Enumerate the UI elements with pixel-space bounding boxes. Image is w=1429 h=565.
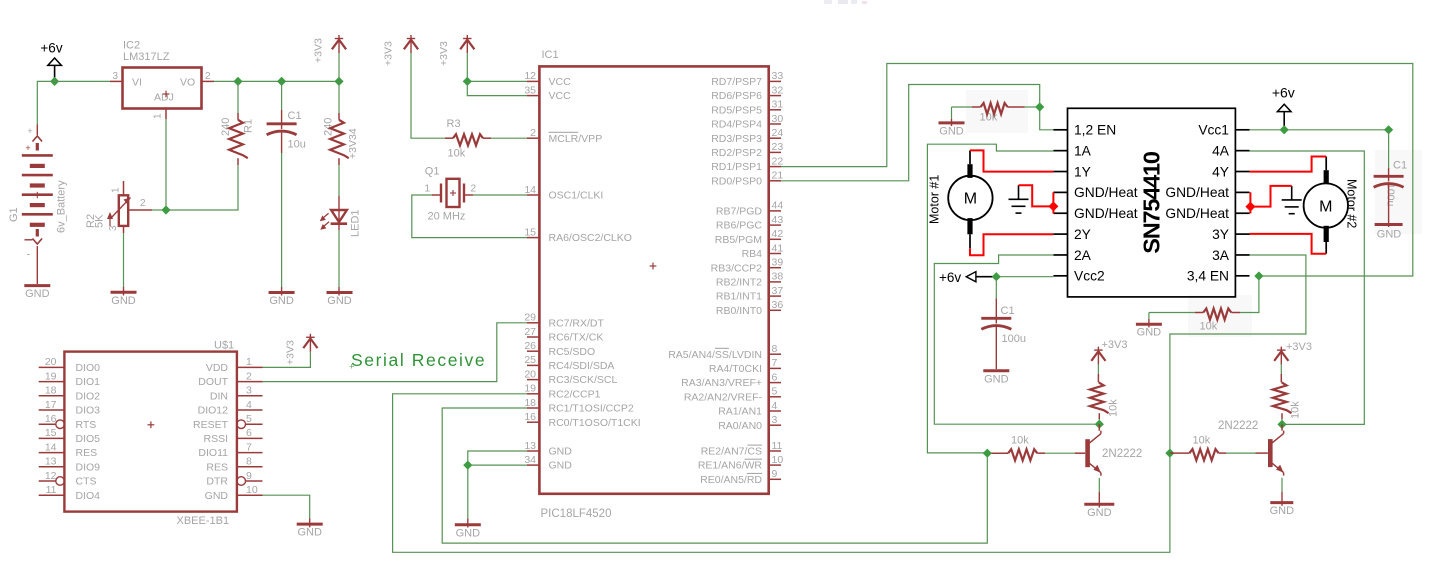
pin 16 RTS: [39, 423, 56, 425]
svg-text:20 MHz: 20 MHz: [428, 211, 466, 223]
svg-text:RC5/SDO: RC5/SDO: [549, 346, 596, 358]
svg-text:RD7/PSP7: RD7/PSP7: [711, 76, 762, 88]
node base junction Q3: [1165, 449, 1174, 458]
pin 12 CTS: [39, 480, 56, 482]
svg-text:3: 3: [112, 71, 118, 82]
svg-text:IC1: IC1: [542, 49, 559, 61]
svg-text:RES: RES: [206, 461, 228, 473]
svg-text:22: 22: [772, 155, 784, 167]
svg-text:8: 8: [246, 456, 252, 468]
pin 4 DIO12: [237, 409, 263, 411]
svg-text:14: 14: [524, 184, 536, 196]
svg-text:RE0/AN5/RD: RE0/AN5/RD: [700, 474, 762, 486]
svg-text:U$1: U$1: [214, 340, 234, 352]
svg-text:10k: 10k: [1108, 399, 1120, 417]
svg-text:+6v: +6v: [1272, 85, 1295, 101]
pin 12 VCC: [527, 80, 539, 82]
svg-text:RC1/T1OSI/CCP2: RC1/T1OSI/CCP2: [549, 403, 634, 415]
svg-text:6: 6: [772, 371, 778, 383]
svg-text:DIO2: DIO2: [76, 390, 101, 402]
wire 2Y: [970, 234, 1053, 255]
svg-text:GND: GND: [456, 527, 481, 539]
pin 30 RD: [769, 123, 781, 125]
svg-text:RA4/T0CKI: RA4/T0CKI: [709, 363, 762, 375]
wire RC2 to Q3 base net: [393, 255, 1306, 552]
node Vcc2 junction: [992, 272, 1001, 281]
pin 4A: [1235, 150, 1249, 152]
wire heat gnd: [1250, 186, 1291, 207]
pin 43 RB: [769, 224, 781, 226]
svg-text:10k: 10k: [1193, 435, 1211, 447]
svg-text:9: 9: [246, 470, 252, 482]
svg-text:19: 19: [45, 370, 57, 382]
pin 3 DIN: [237, 395, 263, 397]
svg-text:3: 3: [772, 414, 778, 426]
svg-text:GND/Heat: GND/Heat: [1074, 185, 1138, 200]
svg-text:LED1: LED1: [350, 209, 362, 237]
pin 35 VCC: [527, 95, 539, 97]
svg-text:+3V3: +3V3: [438, 41, 450, 66]
pin GND/Heat: [1053, 212, 1067, 214]
svg-text:-: -: [27, 249, 31, 261]
pin 16 RC: [527, 421, 539, 423]
node +6v junction: [1280, 125, 1289, 134]
svg-text:RA2/AN2/VREF-: RA2/AN2/VREF-: [684, 391, 763, 403]
svg-text:RB5/PGM: RB5/PGM: [715, 234, 762, 246]
pin 2 DOUT: [237, 381, 263, 383]
svg-text:1: 1: [246, 356, 252, 368]
ground: [24, 284, 50, 287]
pin 44 RB: [769, 210, 781, 212]
svg-text:7: 7: [772, 357, 778, 369]
wire: [55, 80, 110, 82]
wire: [1281, 419, 1283, 424]
wire: [338, 230, 340, 287]
pin 9 DTR: [246, 480, 263, 482]
svg-text:16: 16: [45, 413, 57, 425]
pin 32 RD: [769, 95, 781, 97]
svg-text:GND: GND: [939, 125, 964, 137]
svg-text:DIO11: DIO11: [198, 447, 228, 459]
pin 2 wiper: [128, 209, 152, 211]
svg-text:+6v: +6v: [40, 41, 62, 56]
pin 13 DIO9: [39, 466, 65, 468]
pin 41 RB: [769, 253, 781, 255]
svg-text:36: 36: [772, 299, 784, 311]
pin 18 RC: [527, 407, 539, 409]
svg-text:5K: 5K: [94, 214, 106, 228]
svg-text:RSSI: RSSI: [203, 433, 228, 445]
pin 3,4 EN: [1235, 275, 1249, 277]
wire GND: [263, 495, 310, 518]
svg-text:ADJ: ADJ: [154, 92, 174, 104]
pin 38 RB: [769, 281, 781, 283]
node +6V junction: [50, 77, 59, 86]
svg-text:GND: GND: [111, 295, 136, 307]
svg-text:LM317LZ: LM317LZ: [123, 51, 170, 63]
pin 15 RA6/OSC2/CLKO: [527, 237, 539, 239]
pin 39 RB: [769, 267, 781, 269]
svg-text:44: 44: [772, 200, 784, 212]
highlight box: [966, 90, 1028, 133]
pin 3: [123, 226, 125, 233]
svg-text:RB3/CCP2: RB3/CCP2: [711, 262, 763, 274]
svg-text:+3V3: +3V3: [313, 38, 325, 63]
wire: [152, 209, 166, 211]
svg-text:1Y: 1Y: [1074, 164, 1091, 179]
node VCC junction: [463, 77, 472, 86]
svg-text:RC3/SCK/SCL: RC3/SCK/SCL: [549, 374, 618, 386]
svg-text:RE2/AN7/CS: RE2/AN7/CS: [701, 446, 762, 458]
supply +3V3: [466, 35, 468, 53]
svg-text:27: 27: [524, 326, 536, 338]
svg-text:SN754410: SN754410: [1139, 151, 1165, 254]
pin 1 VDD: [237, 366, 263, 368]
svg-text:RC0/T1OSO/T1CKI: RC0/T1OSO/T1CKI: [549, 417, 641, 429]
svg-text:RD4/PSP4: RD4/PSP4: [711, 119, 762, 131]
svg-text:+3V3: +3V3: [1286, 341, 1312, 353]
wire VDD: [263, 352, 311, 368]
svg-text:GND/Heat: GND/Heat: [1165, 206, 1229, 221]
svg-text:3Y: 3Y: [1212, 227, 1229, 242]
svg-text:IC2: IC2: [123, 40, 140, 52]
pin 34 GND: [527, 464, 539, 466]
wire 3,4EN junction: [1254, 271, 1263, 280]
svg-text:18: 18: [524, 397, 536, 409]
svg-text:41: 41: [772, 242, 784, 254]
supply +3V3: [410, 35, 412, 53]
pin 22 RD: [769, 166, 781, 168]
svg-text:GND/Heat: GND/Heat: [1165, 185, 1229, 200]
svg-text:VDD: VDD: [206, 362, 229, 374]
pin 1: [165, 109, 167, 120]
pin 6 RA: [769, 382, 781, 384]
pin 6 RSSI: [237, 437, 263, 439]
svg-text:RES: RES: [76, 447, 98, 459]
pin 2: [202, 80, 214, 82]
pin 7 DIO11: [237, 452, 263, 454]
pin 4 RA: [769, 410, 781, 412]
svg-text:RD6/PSP6: RD6/PSP6: [711, 90, 762, 102]
wire: [1098, 419, 1100, 424]
svg-text:GND: GND: [1137, 327, 1162, 339]
ground: [1281, 492, 1283, 506]
ground: [951, 119, 953, 126]
svg-text:RC7/RX/DT: RC7/RX/DT: [549, 317, 605, 329]
svg-text:43: 43: [772, 214, 784, 226]
pin 25 RC: [527, 364, 539, 366]
pin 24 RD: [769, 137, 781, 139]
pin 10 RE: [769, 464, 781, 466]
svg-text:12: 12: [45, 470, 57, 482]
node base junction Q2: [983, 449, 992, 458]
svg-text:3,4 EN: 3,4 EN: [1187, 269, 1229, 284]
wire: [951, 107, 953, 119]
wire: [467, 53, 527, 81]
node collector junction Q2: [1095, 420, 1104, 429]
wire RD1 to 3,4EN: [781, 64, 1413, 277]
pin 10 GND: [237, 494, 263, 496]
pin 19 DIO1: [39, 381, 65, 383]
svg-text:5: 5: [246, 413, 252, 425]
svg-text:2N2222: 2N2222: [1218, 420, 1258, 432]
wire RC1 to Q2 base net: [442, 408, 987, 543]
svg-text:OSC1/CLKI: OSC1/CLKI: [549, 190, 604, 202]
svg-text:10: 10: [772, 454, 784, 466]
svg-text:6v_Battery: 6v_Battery: [56, 180, 68, 233]
svg-text:+3V34: +3V34: [347, 128, 359, 159]
svg-text:DIO0: DIO0: [76, 362, 101, 374]
wire: [1280, 364, 1282, 374]
driver U2 SN754410: [1068, 108, 1236, 297]
svg-text:GND: GND: [549, 460, 573, 472]
node junction LED branch: [334, 77, 343, 86]
svg-text:38: 38: [772, 271, 784, 283]
pin 14 OSC1/CLKI: [527, 194, 539, 196]
svg-text:+3V3: +3V3: [383, 41, 395, 66]
svg-text:RD5/PSP5: RD5/PSP5: [711, 104, 762, 116]
svg-text:Motor #2: Motor #2: [1345, 179, 1359, 228]
pin 37 RB: [769, 295, 781, 297]
node junction C1: [277, 77, 286, 86]
svg-text:RE1/AN6/WR: RE1/AN6/WR: [698, 460, 763, 472]
wire: [166, 165, 238, 210]
highlight box: [1188, 295, 1252, 337]
wire: [281, 153, 283, 287]
svg-text:3A: 3A: [1212, 248, 1230, 263]
supply +3V3: [1097, 347, 1099, 365]
svg-text:13: 13: [524, 440, 536, 452]
svg-text:GND: GND: [1270, 505, 1295, 517]
svg-text:2: 2: [530, 127, 536, 139]
svg-text:DIO5: DIO5: [76, 433, 101, 445]
wire 4A net: [1250, 151, 1365, 424]
wire: [123, 233, 125, 287]
wire Vcc1 rail: [1250, 129, 1389, 131]
ground earth: [1291, 186, 1293, 200]
pin 3: [110, 80, 123, 82]
svg-text:5: 5: [772, 386, 778, 398]
svg-text:20: 20: [45, 356, 57, 368]
svg-text:37: 37: [772, 285, 784, 297]
svg-text:24: 24: [772, 127, 784, 139]
svg-text:VCC: VCC: [549, 76, 572, 88]
svg-text:VO: VO: [180, 77, 195, 89]
wire ADJ: [165, 119, 167, 210]
svg-text:19: 19: [524, 383, 536, 395]
svg-text:20: 20: [524, 368, 536, 380]
svg-text:GND: GND: [1377, 229, 1402, 241]
pin 7 RA: [769, 367, 781, 369]
svg-text:VCC: VCC: [549, 90, 572, 102]
svg-text:DIO1: DIO1: [76, 376, 101, 388]
svg-text:15: 15: [45, 427, 57, 439]
svg-text:CTS: CTS: [76, 476, 97, 488]
highlight box: [1375, 150, 1422, 234]
wire OSC1: [464, 194, 473, 196]
wire GND: [468, 464, 527, 466]
svg-text:2: 2: [246, 370, 252, 382]
pin 42 RB: [769, 238, 781, 240]
svg-text:2Y: 2Y: [1074, 227, 1091, 242]
svg-text:GND: GND: [984, 373, 1009, 385]
svg-text:+: +: [25, 143, 30, 153]
svg-text:DIO4: DIO4: [76, 490, 101, 502]
pin 3 RA: [769, 424, 781, 426]
svg-text:15: 15: [524, 226, 536, 238]
svg-text:GND/Heat: GND/Heat: [1074, 206, 1138, 221]
svg-text:RA6/OSC2/CLKO: RA6/OSC2/CLKO: [549, 232, 632, 244]
svg-text:C1: C1: [1001, 305, 1015, 317]
svg-text:26: 26: [524, 340, 536, 352]
node cap junction: [1384, 125, 1393, 134]
pin 20 DIO0: [39, 366, 65, 368]
svg-text:RB4: RB4: [742, 248, 763, 260]
ground earth: [1018, 185, 1020, 199]
wire 2A net: [934, 255, 1099, 424]
svg-text:16: 16: [524, 411, 536, 423]
svg-text:RTS: RTS: [76, 419, 97, 431]
svg-text:GND: GND: [297, 527, 322, 539]
svg-text:Serial Receive: Serial Receive: [351, 350, 486, 370]
pin GND/Heat: [1235, 191, 1249, 193]
wire 4Y: [1250, 157, 1327, 172]
svg-text:DIO9: DIO9: [76, 461, 101, 473]
svg-text:10k: 10k: [1200, 321, 1218, 333]
ground: [1375, 223, 1403, 226]
pin 23 RD: [769, 151, 781, 153]
node collector junction Q3: [1277, 420, 1286, 429]
pin 1,2 EN: [1053, 129, 1067, 131]
svg-text:Vcc1: Vcc1: [1198, 123, 1229, 138]
svg-text:RA1/AN1: RA1/AN1: [718, 406, 762, 418]
supply +3V3: [1280, 347, 1282, 365]
pin GND/Heat: [1235, 212, 1249, 214]
pin 1A: [1053, 150, 1067, 152]
wire: [467, 81, 527, 95]
svg-text:RD3/PSP3: RD3/PSP3: [711, 133, 762, 145]
svg-text:4A: 4A: [1212, 143, 1230, 158]
pin 2A: [1053, 254, 1067, 256]
svg-text:3: 3: [246, 385, 252, 397]
pin 5 RESET: [246, 423, 263, 425]
wire emitter: [1098, 478, 1100, 492]
pin 2Y: [1053, 233, 1067, 235]
svg-text:10k: 10k: [1011, 435, 1029, 447]
svg-text:33: 33: [772, 70, 784, 82]
svg-text:G1: G1: [8, 207, 20, 222]
svg-text:100u: 100u: [1385, 183, 1397, 207]
svg-text:10k: 10k: [448, 148, 466, 160]
svg-text:9: 9: [772, 468, 778, 480]
pin 13 GND: [527, 450, 539, 452]
svg-text:4: 4: [246, 399, 252, 411]
svg-text:2N2222: 2N2222: [1102, 448, 1142, 460]
svg-text:1,2 EN: 1,2 EN: [1074, 123, 1116, 138]
svg-text:+3V3: +3V3: [285, 340, 297, 365]
svg-text:10k: 10k: [1290, 401, 1302, 419]
svg-text:4: 4: [772, 400, 778, 412]
wire heat gnd: [1019, 185, 1054, 206]
svg-text:Q1: Q1: [425, 166, 440, 178]
svg-text:8: 8: [772, 343, 778, 355]
svg-text:RA5/AN4/SS/LVDIN: RA5/AN4/SS/LVDIN: [668, 349, 762, 361]
screen artifact: [824, 0, 832, 4]
svg-text:+6v: +6v: [939, 270, 961, 285]
wire: [1148, 313, 1150, 320]
svg-text:DIN: DIN: [210, 390, 228, 402]
wire: [1097, 364, 1099, 374]
svg-text:RB7/PGD: RB7/PGD: [716, 206, 763, 218]
wire: [214, 80, 339, 82]
svg-text:R1: R1: [243, 119, 255, 133]
pin 2 MCLR/VPP: [527, 137, 539, 139]
svg-text:RC6/TX/CK: RC6/TX/CK: [549, 332, 604, 344]
svg-text:GND: GND: [269, 295, 294, 307]
wire RD0 to 1,2EN: [781, 85, 1053, 181]
pin 5 RA: [769, 396, 781, 398]
svg-text:10u: 10u: [288, 139, 306, 151]
svg-text:RB1/INT1: RB1/INT1: [716, 291, 762, 303]
wire GND: [468, 451, 527, 518]
svg-text:DTR: DTR: [206, 476, 228, 488]
svg-text:DOUT: DOUT: [198, 376, 228, 388]
svg-text:30: 30: [772, 113, 784, 125]
svg-text:RB6/PGC: RB6/PGC: [716, 220, 763, 232]
pin 3Y: [1235, 233, 1249, 235]
wire 1A net: [927, 144, 1053, 453]
svg-text:RB2/INT2: RB2/INT2: [716, 277, 762, 289]
svg-text:RA3/AN3/VREF+: RA3/AN3/VREF+: [681, 377, 762, 389]
node ADJ junction: [161, 205, 170, 214]
svg-text:2: 2: [205, 71, 211, 82]
node junction R1: [233, 77, 242, 86]
svg-text:35: 35: [524, 84, 536, 96]
node GND junction: [463, 461, 472, 470]
node red junction: [1245, 202, 1255, 212]
svg-text:RESET: RESET: [193, 419, 229, 431]
pin 9 RE: [769, 478, 781, 480]
pin 26 RC: [527, 350, 539, 352]
svg-text:+: +: [27, 126, 32, 136]
svg-text:RC2/CCP1: RC2/CCP1: [549, 388, 601, 400]
ground: [281, 287, 283, 296]
wire: [338, 165, 340, 196]
svg-text:XBEE-1B1: XBEE-1B1: [177, 515, 230, 527]
pin 17 DIO3: [39, 409, 65, 411]
svg-text:29: 29: [524, 312, 536, 324]
svg-text:17: 17: [45, 399, 57, 411]
pin 36 RB: [769, 309, 781, 311]
ground: [1148, 319, 1150, 327]
svg-text:+3V3: +3V3: [1102, 339, 1128, 351]
ground: [309, 519, 311, 528]
svg-text:11: 11: [46, 484, 57, 496]
svg-text:Vcc2: Vcc2: [1074, 269, 1105, 284]
wire: [411, 53, 445, 138]
wire emitter: [1281, 478, 1283, 492]
svg-text:RD2/PSP2: RD2/PSP2: [711, 147, 762, 159]
pin 29 RC: [527, 322, 539, 324]
svg-text:13: 13: [45, 456, 57, 468]
svg-text:12: 12: [524, 70, 536, 82]
svg-text:C1: C1: [1393, 160, 1407, 172]
pin 11 DIO4: [39, 494, 65, 496]
svg-text:100u: 100u: [1002, 333, 1026, 345]
svg-text:M: M: [964, 191, 977, 208]
node junction 1,2EN: [1035, 102, 1044, 111]
pin 4Y: [1235, 171, 1249, 173]
